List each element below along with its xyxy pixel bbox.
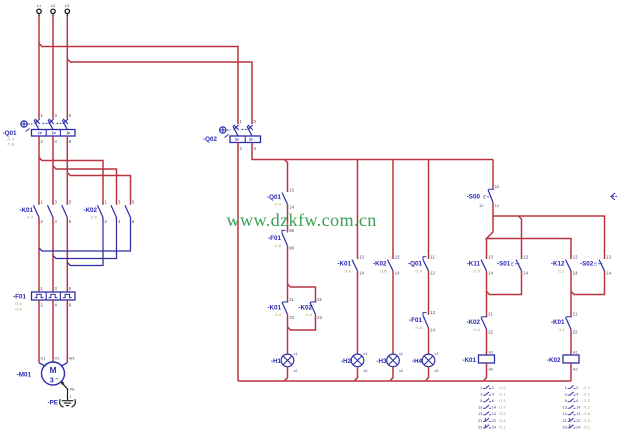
- contactor K02 main contacts: [83, 199, 135, 223]
- svg-text:-K02: -K02: [298, 304, 312, 311]
- svg-text:14: 14: [523, 271, 528, 276]
- wire parallel rejoin: [288, 314, 316, 330]
- svg-text:x2: x2: [294, 369, 298, 373]
- svg-text:12: 12: [495, 204, 499, 208]
- svg-text:-Q01: -Q01: [408, 261, 422, 268]
- circuit-breaker Q01: [3, 113, 76, 147]
- svg-text:21: 21: [573, 312, 578, 317]
- wire W to motor: [66, 300, 68, 363]
- contact -S01 13-14: [497, 254, 529, 275]
- contact K01 NC 21-22 interlock: [551, 312, 578, 335]
- svg-text:/1.6: /1.6: [90, 214, 97, 219]
- svg-text:-Q01: -Q01: [267, 194, 281, 201]
- svg-text:3: 3: [480, 392, 482, 397]
- wire bus drop H2 column: [357, 160, 359, 260]
- wire lamp H3 to rail: [390, 367, 393, 381]
- svg-text:-K02: -K02: [83, 207, 97, 214]
- svg-text:I>: I>: [249, 137, 253, 142]
- wire branch L2 to K02 pole 2: [53, 166, 117, 205]
- wire column 1 to parallel split: [287, 246, 289, 302]
- svg-text:3: 3: [565, 392, 567, 397]
- svg-text:-M01: -M01: [17, 372, 32, 379]
- emergency stop S00 11-12: [467, 184, 500, 208]
- svg-text:/1.6: /1.6: [584, 411, 591, 416]
- svg-text:13: 13: [573, 254, 578, 259]
- svg-text:/1.4: /1.4: [274, 202, 281, 207]
- svg-text:21: 21: [478, 418, 482, 423]
- contact F01 aux 95-96: [268, 228, 295, 251]
- svg-text:14: 14: [395, 271, 400, 276]
- wire coil K01 to rail: [483, 363, 486, 381]
- svg-text:x1: x1: [294, 352, 298, 356]
- wire coil K02 to rail: [570, 363, 572, 381]
- svg-text:M: M: [50, 366, 57, 375]
- wire branch to S01: [519, 216, 522, 259]
- contact Q01 aux 13-14: [267, 188, 295, 210]
- contact -K11 13-14: [467, 254, 494, 275]
- wire bus end drop to S00: [492, 160, 494, 189]
- svg-text:-K02: -K02: [373, 261, 387, 268]
- svg-text:23: 23: [562, 424, 566, 429]
- wire K02 pole3 crossover to L1: [39, 218, 131, 252]
- svg-text:~: ~: [55, 377, 58, 383]
- wire bottom rail: [238, 380, 571, 382]
- contact F01 aux 97-98: [409, 310, 436, 333]
- contact K02 NC 21-22 interlock: [466, 312, 493, 335]
- svg-text:13: 13: [523, 254, 528, 259]
- svg-text:11: 11: [495, 184, 500, 189]
- svg-text:/1.8: /1.8: [8, 141, 15, 146]
- svg-text:23: 23: [478, 424, 482, 429]
- svg-text:5: 5: [480, 398, 482, 403]
- svg-text:96: 96: [289, 245, 294, 250]
- svg-text:/1.8: /1.8: [15, 306, 22, 311]
- svg-text:1: 1: [70, 395, 72, 399]
- svg-text:-K01: -K01: [337, 261, 351, 268]
- contact -Q01 11-12: [408, 254, 436, 275]
- wire phase L3 vertical to Q01: [66, 17, 68, 119]
- wire K11 to K02 NC: [486, 271, 488, 317]
- svg-text:/2.1: /2.1: [499, 424, 506, 429]
- wire branch L3 to Q02 pole 2: [67, 59, 252, 124]
- wire S00 to lower branch bus: [487, 216, 572, 259]
- wire K02 pole1 crossover to L3: [67, 218, 103, 266]
- svg-text:/1.5: /1.5: [499, 411, 506, 416]
- svg-text:A1: A1: [573, 350, 578, 354]
- svg-text:22: 22: [492, 418, 496, 423]
- terminal L1: [37, 4, 41, 17]
- svg-text:I>: I>: [38, 131, 42, 136]
- svg-text:/1.6: /1.6: [305, 312, 312, 317]
- svg-text:-PE: -PE: [48, 400, 59, 407]
- svg-text:/1.4: /1.4: [344, 268, 351, 273]
- svg-text:22: 22: [488, 329, 493, 334]
- wire phase L1 vertical to Q01: [38, 17, 40, 119]
- wire column 1 segment: [287, 204, 289, 232]
- svg-text:5: 5: [565, 398, 567, 403]
- svg-text:x2: x2: [399, 369, 403, 373]
- ground PE symbol: [48, 399, 76, 407]
- svg-text:12: 12: [479, 203, 484, 208]
- svg-text:6: 6: [576, 398, 578, 403]
- svg-text:-F01: -F01: [409, 317, 422, 324]
- svg-text:-K11: -K11: [467, 261, 481, 268]
- svg-text:13: 13: [395, 254, 400, 259]
- svg-text:1: 1: [565, 385, 567, 390]
- svg-text:13: 13: [488, 254, 493, 259]
- wire K12 to K01 NC: [570, 271, 572, 317]
- svg-text:2: 2: [576, 385, 578, 390]
- svg-text:13: 13: [562, 405, 566, 410]
- svg-text:PE: PE: [70, 387, 76, 392]
- wire L3 Q01 to K01: [66, 136, 68, 205]
- wire Q02 pole2 to control bus: [252, 143, 493, 160]
- wire parallel branch to K02 NC: [288, 284, 316, 302]
- svg-text:A2: A2: [489, 368, 494, 372]
- svg-text:/1.6: /1.6: [473, 327, 480, 332]
- svg-text:E: E: [594, 262, 597, 267]
- svg-text:/1.8: /1.8: [274, 243, 281, 248]
- cross-reference table K01: [478, 385, 506, 429]
- contact -K12 13-14: [551, 254, 578, 275]
- svg-text:12: 12: [430, 271, 435, 276]
- circuit-breaker Q02: [203, 119, 261, 151]
- svg-text:U1: U1: [41, 356, 47, 361]
- svg-text:/1.9: /1.9: [473, 268, 480, 273]
- contact -K02 13-14: [373, 254, 400, 275]
- svg-text:-K12: -K12: [551, 261, 565, 268]
- svg-text:21: 21: [488, 312, 493, 317]
- svg-text:3: 3: [50, 378, 54, 385]
- svg-text:13: 13: [562, 411, 566, 416]
- svg-text:14: 14: [606, 271, 611, 276]
- svg-text:13: 13: [289, 188, 294, 193]
- wire L1 K01 to F01: [38, 218, 40, 293]
- thermal overload relay F01: [13, 286, 75, 311]
- svg-text:-Q02: -Q02: [203, 136, 217, 143]
- wire lamp H2 to rail: [354, 367, 357, 381]
- svg-text:x1: x1: [435, 352, 439, 356]
- wire bus drop column 1: [285, 160, 288, 193]
- wire column 3 to lamp H3: [392, 271, 394, 354]
- svg-text:V1: V1: [55, 356, 61, 361]
- svg-text:/1.4: /1.4: [274, 312, 281, 317]
- wire K02 pole2 crossover to L2: [53, 218, 117, 259]
- svg-text:I>: I>: [235, 137, 239, 142]
- wire lamp H1 to rail: [284, 367, 287, 381]
- contactor K01 main contacts: [19, 199, 71, 223]
- wire K01 NC to coil K02: [570, 329, 572, 355]
- wire L3 K01 to F01: [66, 218, 68, 293]
- wire branch L1 to Q02 pole 1: [39, 44, 238, 125]
- svg-text:/1.6: /1.6: [380, 268, 387, 273]
- svg-text:-S02: -S02: [580, 261, 594, 268]
- wire L1 Q01 to K01: [38, 136, 40, 205]
- svg-text:13: 13: [430, 310, 435, 315]
- svg-text:13: 13: [359, 254, 364, 259]
- wire K02 NC to coil K01: [486, 329, 488, 355]
- wire bus drop H3 column: [392, 160, 394, 260]
- svg-text:-S00: -S00: [467, 194, 481, 201]
- svg-text:E: E: [483, 195, 486, 200]
- svg-text:-K01: -K01: [462, 357, 476, 364]
- wire motor PE to ground: [61, 381, 75, 400]
- wire K12/S02 rejoin: [571, 271, 605, 295]
- svg-text:www.dzkfw.com.cn: www.dzkfw.com.cn: [227, 210, 377, 230]
- svg-text:I>: I>: [67, 131, 71, 136]
- svg-text:/1.4: /1.4: [415, 268, 422, 273]
- svg-text:E: E: [511, 262, 514, 267]
- node interrupt arrow: [611, 193, 619, 200]
- svg-text:W1: W1: [69, 356, 76, 361]
- contact -S02 13-14: [580, 254, 612, 275]
- svg-text:x2: x2: [435, 369, 439, 373]
- svg-text:-F01: -F01: [13, 294, 26, 301]
- svg-text:11: 11: [430, 254, 435, 259]
- cross-reference table K02: [562, 385, 590, 429]
- wire L2 K01 to F01: [52, 218, 54, 293]
- contact K01 NC 21-22: [267, 297, 294, 320]
- svg-text:/1.4: /1.4: [26, 214, 33, 219]
- wire column 2 to lamp H2: [357, 271, 359, 354]
- svg-text:22: 22: [573, 329, 578, 334]
- lamp H3: [376, 352, 403, 373]
- wire K11/S01 rejoin: [487, 271, 522, 295]
- svg-text:-K02: -K02: [547, 357, 561, 364]
- wire branch L3 to K02 pole 3: [67, 173, 130, 205]
- svg-text:-K01: -K01: [19, 207, 33, 214]
- wire V to motor: [52, 300, 54, 362]
- svg-text:14: 14: [359, 271, 364, 276]
- svg-text:22: 22: [576, 418, 580, 423]
- svg-text:/1.4: /1.4: [499, 418, 506, 423]
- svg-text:/1.2: /1.2: [584, 392, 591, 397]
- svg-text:/1.9: /1.9: [499, 405, 506, 410]
- wire phase L2 vertical to Q01: [52, 17, 54, 119]
- svg-text:13: 13: [478, 405, 482, 410]
- svg-text:14: 14: [573, 271, 578, 276]
- lamp H2: [341, 352, 368, 373]
- wire column 4 to lamp H4: [428, 328, 430, 354]
- svg-text:-H1: -H1: [271, 358, 282, 365]
- wire branch L1 to K02 pole 1: [39, 158, 103, 205]
- wire lamp H4 to rail: [425, 367, 428, 381]
- svg-text:2: 2: [492, 385, 494, 390]
- wire lower branch to K11: [486, 239, 488, 260]
- wire Q02 pole1 to bottom rail: [237, 143, 239, 382]
- svg-text:-K01: -K01: [551, 319, 565, 326]
- wire column 4 segment: [428, 271, 430, 315]
- svg-text:-F01: -F01: [268, 235, 281, 242]
- svg-text:/1.8: /1.8: [415, 325, 422, 330]
- svg-text:-H4: -H4: [412, 358, 423, 365]
- svg-text:A1: A1: [489, 350, 494, 354]
- svg-text:x1: x1: [399, 352, 403, 356]
- coil K01: [462, 350, 494, 371]
- svg-text:-K02: -K02: [466, 319, 480, 326]
- coil K02: [547, 350, 579, 371]
- svg-text:x1: x1: [364, 352, 368, 356]
- terminal L2: [51, 4, 55, 17]
- svg-text:/1.4: /1.4: [15, 301, 22, 306]
- svg-text:/1.1: /1.1: [584, 385, 591, 390]
- svg-text:L2: L2: [51, 4, 55, 8]
- svg-text:21: 21: [317, 297, 322, 302]
- svg-text:1: 1: [480, 385, 482, 390]
- svg-text:/1.4: /1.4: [558, 327, 565, 332]
- contact K02 NC 21-22: [298, 297, 322, 320]
- svg-text:L3: L3: [65, 4, 69, 8]
- svg-text:/1.5: /1.5: [584, 418, 591, 423]
- svg-text:/1.2: /1.2: [584, 398, 591, 403]
- wire L2 Q01 to K01: [52, 136, 54, 205]
- svg-text:L1: L1: [37, 4, 41, 8]
- svg-text:x2: x2: [364, 369, 368, 373]
- wire S00 to upper branch bus: [493, 202, 605, 259]
- svg-text:14: 14: [488, 271, 493, 276]
- svg-text:14: 14: [430, 328, 435, 333]
- svg-text:A2: A2: [573, 368, 578, 372]
- svg-text:-H2: -H2: [341, 358, 352, 365]
- svg-text:13: 13: [478, 411, 482, 416]
- contact -K01 13-14: [337, 254, 364, 275]
- svg-text:/1.9: /1.9: [499, 385, 506, 390]
- svg-text:21: 21: [289, 297, 294, 302]
- motor M01: [17, 356, 76, 386]
- svg-text:-S01: -S01: [497, 261, 511, 268]
- svg-text:I>: I>: [52, 131, 56, 136]
- svg-text:6: 6: [492, 398, 494, 403]
- svg-text:22: 22: [289, 315, 294, 320]
- wire U to motor: [38, 300, 40, 363]
- svg-text:/2.1: /2.1: [584, 424, 591, 429]
- svg-text:/2.1: /2.1: [558, 268, 565, 273]
- terminal L3: [65, 4, 69, 17]
- lamp H4: [412, 352, 439, 373]
- lamp H1: [271, 352, 298, 373]
- svg-text:22: 22: [317, 315, 322, 320]
- svg-text:13: 13: [606, 254, 611, 259]
- wire column 1 to lamp H1: [287, 314, 289, 354]
- svg-text:/1.1: /1.1: [499, 392, 506, 397]
- svg-text:21: 21: [562, 418, 566, 423]
- svg-text:/1.1: /1.1: [584, 405, 591, 410]
- svg-text:/1.1: /1.1: [499, 398, 506, 403]
- svg-text:-H3: -H3: [376, 358, 387, 365]
- wire bus drop H4 column: [428, 160, 430, 260]
- svg-text:-K01: -K01: [267, 304, 281, 311]
